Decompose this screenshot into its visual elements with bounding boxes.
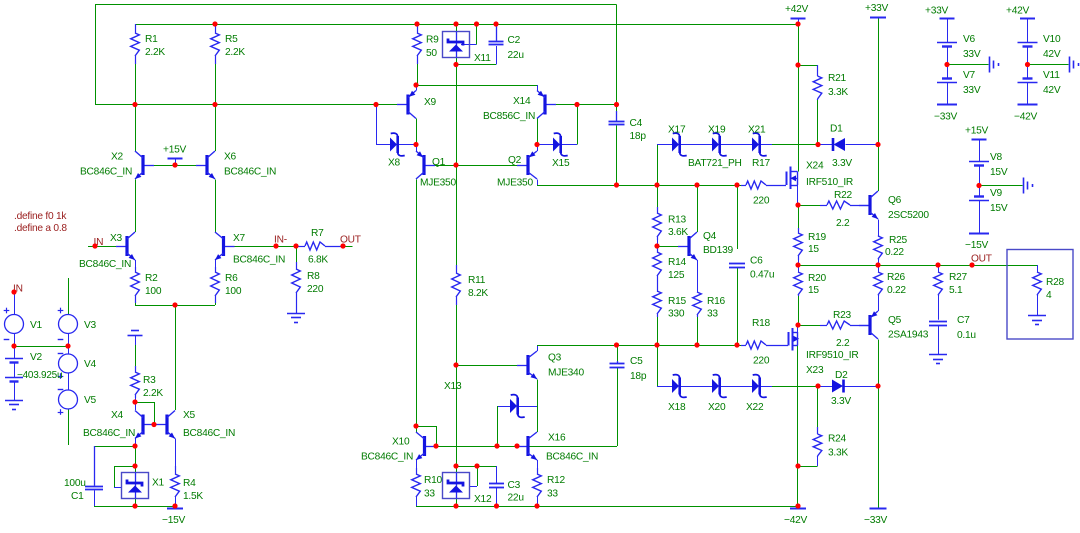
capacitor C2	[489, 24, 504, 45]
svg-text:R8: R8	[307, 271, 320, 282]
wire X4 collector loop drop	[154, 402, 156, 425]
label X4	[111, 410, 124, 421]
wire chain2 X18 lead	[657, 386, 672, 388]
wire bottom left rail y=506	[94, 506, 175, 508]
directive .define a 0.8	[14, 223, 67, 234]
value R25	[885, 247, 904, 258]
wire R5 top drop	[215, 24, 217, 32]
svg-text:BC846C_IN: BC846C_IN	[79, 259, 131, 270]
wire R13 bottom to Q4 node	[657, 240, 659, 246]
label X6	[224, 152, 237, 163]
wire X11 node to C2	[456, 64, 496, 66]
svg-text:V2: V2	[30, 352, 43, 363]
resistor R26	[874, 272, 883, 296]
wire R11 column top	[456, 165, 458, 265]
wire R11 column bottom	[456, 305, 458, 365]
rail -15V bar (V9)	[969, 233, 989, 235]
wire x=616 drop from top rail	[616, 5, 618, 105]
wire C6 top drop	[737, 185, 739, 249]
wire R14-R15	[657, 277, 659, 292]
wire V1 minus to node	[14, 334, 16, 347]
junction at (135,446)	[132, 443, 137, 448]
resistor R4	[171, 466, 180, 498]
label R18	[752, 318, 771, 329]
wire X9 emitter node	[416, 85, 418, 91]
svg-text:V5: V5	[84, 395, 97, 406]
junction at (697,185)	[694, 182, 699, 187]
value C5	[630, 371, 647, 382]
svg-text:R24: R24	[828, 434, 847, 445]
label R10	[424, 475, 443, 486]
label V11	[1043, 70, 1060, 81]
svg-text:125: 125	[668, 270, 685, 281]
svg-text:100: 100	[145, 286, 162, 297]
wire y=85 X9 to X14 emitter	[416, 85, 537, 87]
wire R22 from source node	[798, 205, 820, 207]
value R18	[753, 356, 770, 367]
wire +33V rail drop	[878, 18, 880, 145]
label X1	[152, 478, 165, 489]
value R19	[808, 244, 819, 255]
svg-text:3.3V: 3.3V	[832, 158, 852, 169]
mosfet X24 IRF510	[787, 167, 798, 190]
junction at (737,345)	[734, 342, 739, 347]
junction at (798,205)	[795, 202, 800, 207]
junction at (95,246)	[92, 243, 97, 248]
label +33V	[865, 3, 889, 14]
model X3	[79, 259, 131, 270]
svg-text:BC846C_IN: BC846C_IN	[224, 167, 276, 178]
model X10	[361, 452, 413, 463]
junction at (456,506)	[453, 503, 458, 508]
svg-text:15V: 15V	[990, 203, 1008, 214]
wire X9 collector to Q1 node	[416, 119, 418, 145]
wire V6V7 node to ground	[947, 64, 989, 66]
transistor X9 (pnp)	[397, 91, 416, 119]
value V7	[963, 85, 981, 96]
label R25	[889, 235, 908, 246]
svg-text:R20: R20	[808, 273, 827, 284]
svg-text:R28: R28	[1046, 277, 1065, 288]
label X24	[806, 161, 824, 172]
junction at (376,104.5)	[373, 102, 378, 107]
label V3	[84, 320, 97, 331]
svg-text:42V: 42V	[1043, 85, 1061, 96]
wire chain X21 right lead	[760, 144, 772, 146]
svg-text:R21: R21	[828, 73, 847, 84]
junction at (343,246)	[340, 243, 345, 248]
transistor X2	[135, 151, 154, 179]
resistor R18	[741, 341, 788, 349]
value R6	[225, 286, 242, 297]
svg-text:220: 220	[753, 356, 770, 367]
load box around R28	[1007, 250, 1073, 340]
resistor R17	[741, 181, 786, 189]
svg-text:15: 15	[808, 285, 819, 296]
svg-text:X15: X15	[552, 158, 570, 169]
svg-text:IRF510_IR: IRF510_IR	[806, 177, 853, 188]
svg-text:+42V: +42V	[785, 4, 809, 15]
transistor Q4 BD139	[678, 232, 697, 260]
svg-text:2.2: 2.2	[836, 218, 850, 229]
svg-text:−15V: −15V	[965, 240, 989, 251]
svg-text:BAT721_PH: BAT721_PH	[688, 158, 742, 169]
zener X17	[672, 133, 687, 156]
transistor Q6 2SC5200	[859, 191, 878, 219]
rail +42V bar	[791, 18, 806, 20]
svg-text:0.1u: 0.1u	[957, 330, 976, 341]
wire X8 anode lead	[376, 144, 390, 146]
svg-text:100: 100	[225, 286, 242, 297]
capacitor C5	[610, 361, 625, 368]
wire R19 bottom	[798, 260, 800, 265]
rail -42V bar (V11)	[1018, 104, 1038, 106]
wire R12 bottom	[537, 497, 539, 506]
svg-text:D1: D1	[830, 124, 843, 135]
source V1	[4, 308, 24, 340]
svg-text:2SC5200: 2SC5200	[888, 210, 929, 221]
capacitor C6	[729, 264, 745, 268]
wire X23 drain drop	[797, 346, 799, 507]
svg-text:V8: V8	[990, 152, 1003, 163]
junction at (276,246)	[273, 243, 278, 248]
label R13	[668, 215, 687, 226]
svg-text:−403.925u: −403.925u	[17, 370, 62, 381]
value R26	[887, 285, 906, 296]
svg-text:2.2K: 2.2K	[143, 388, 163, 399]
junction at (577,104.5)	[574, 102, 579, 107]
wire V10 to node	[1027, 47, 1029, 65]
capacitor C4	[609, 111, 625, 125]
value R15	[668, 309, 685, 320]
svg-text:1.5K: 1.5K	[183, 491, 203, 502]
label V1	[30, 320, 43, 331]
svg-text:50: 50	[426, 48, 437, 59]
value V9	[990, 203, 1008, 214]
wire Q5 collector drop	[878, 340, 880, 509]
label R19	[808, 232, 827, 243]
svg-text:R27: R27	[949, 272, 968, 283]
wire V10V11 node to ground	[1028, 64, 1069, 66]
rail -42V bar	[790, 508, 806, 510]
value C4	[630, 131, 647, 142]
transistor Q2 MJE350 (pnp)	[517, 151, 537, 179]
label R7	[311, 228, 324, 239]
junction at (616.5,345)	[614, 342, 619, 347]
wire +42V stub	[798, 18, 800, 24]
wire chain2 riser x=657	[657, 345, 659, 386]
value R5	[225, 47, 245, 58]
rail +33V bar	[870, 17, 886, 19]
label R1	[145, 34, 158, 45]
label X8	[388, 158, 401, 169]
svg-text:X12: X12	[474, 494, 492, 505]
junction at (517,446)	[514, 443, 519, 448]
junction at (878,144.5)	[875, 142, 880, 147]
label X16	[548, 433, 566, 444]
resistor R8	[292, 262, 301, 313]
svg-text:R1: R1	[145, 34, 158, 45]
svg-text:3.3V: 3.3V	[831, 396, 851, 407]
wire D2 anode lead	[818, 386, 832, 388]
svg-text:2.2K: 2.2K	[145, 47, 165, 58]
svg-text:R25: R25	[889, 235, 908, 246]
label C6	[750, 256, 763, 267]
model X4	[83, 428, 135, 439]
label X9	[424, 97, 437, 108]
junction at (657,246)	[654, 243, 659, 248]
wire X1 tap into box	[114, 487, 122, 489]
wire X16 collector segment	[537, 406, 539, 432]
junction at (14,292)	[11, 289, 16, 294]
svg-text:Q6: Q6	[888, 195, 902, 206]
wire +15V stub	[175, 159, 177, 166]
wire Q1 emitter stub	[416, 145, 418, 152]
label C3	[508, 480, 521, 491]
svg-text:MJE340: MJE340	[548, 368, 584, 379]
wire OUT stub right of R7	[343, 246, 353, 248]
wire node V1V2 to node V3V4	[14, 346, 68, 348]
wire X13 left lead	[497, 406, 510, 408]
wire V2 mid lead	[14, 363, 16, 378]
net label IN (amp input)	[94, 237, 104, 248]
wire ground-R3 gap	[135, 345, 137, 366]
wire chain2 X22 to D2 node	[772, 386, 818, 388]
wire V5 bottom stub	[68, 409, 70, 445]
svg-text:3.3K: 3.3K	[828, 448, 848, 459]
junction at (657,345)	[654, 342, 659, 347]
wire R10 bottom	[416, 497, 418, 506]
wire X11 anode node	[456, 58, 458, 65]
boxed zener X11	[443, 32, 470, 58]
label X12	[474, 494, 492, 505]
wire C1 bottom corner	[94, 490, 96, 506]
model Q5	[888, 330, 929, 341]
svg-text:BC846C_IN: BC846C_IN	[183, 428, 235, 439]
svg-text:0.22: 0.22	[887, 285, 906, 296]
wire X1 tap drop	[114, 466, 116, 487]
label R24	[828, 434, 847, 445]
wire X2 base to +15V node	[143, 165, 175, 167]
junction at (416,426)	[413, 423, 418, 428]
junction at (215,104.5)	[212, 102, 217, 107]
wire R19 top	[798, 205, 800, 228]
svg-text:C7: C7	[957, 315, 970, 326]
wire X4 base to X5 base	[143, 424, 167, 426]
svg-text:X10: X10	[392, 437, 410, 448]
wire Q1 collector long drop x=416	[416, 180, 418, 427]
wire bottom mid rail y=506	[416, 506, 798, 508]
svg-text:V10: V10	[1043, 34, 1061, 45]
wire R24 top drop	[817, 386, 819, 427]
svg-text:X22: X22	[746, 402, 764, 413]
wire V7 bottom lead	[947, 83, 949, 105]
junction at (798,265)	[795, 262, 800, 267]
source V5	[58, 390, 78, 415]
wire R26 top	[878, 265, 880, 272]
junction at (496.5,506)	[494, 503, 499, 508]
junction at (476.5,24)	[474, 21, 479, 26]
junction at (878,386)	[875, 383, 880, 388]
value R22	[836, 218, 850, 229]
wire mirror base rail y=446	[436, 446, 617, 448]
svg-text:R3: R3	[143, 375, 156, 386]
svg-text:V9: V9	[990, 188, 1003, 199]
zener X18	[672, 375, 687, 398]
battery V7 (short top)	[937, 79, 957, 83]
label -15V (V9)	[965, 240, 989, 251]
svg-text:Q3: Q3	[548, 353, 562, 364]
svg-text:33: 33	[707, 309, 718, 320]
junction at (878,265)	[875, 262, 880, 267]
svg-text:V11: V11	[1043, 70, 1060, 81]
svg-text:R2: R2	[145, 273, 158, 284]
wire X12 tap horiz	[470, 486, 478, 488]
label R5	[225, 34, 238, 45]
svg-text:33V: 33V	[963, 85, 981, 96]
label R8	[307, 271, 320, 282]
wire R13 top	[657, 185, 659, 207]
label Q1	[432, 157, 446, 168]
svg-text:R6: R6	[225, 273, 238, 284]
junction R4 ground node	[172, 503, 177, 508]
label C1	[71, 491, 84, 502]
label C1 value	[64, 478, 86, 489]
wire R6 bottom	[215, 303, 217, 305]
resistor R9	[413, 24, 422, 64]
resistor R11	[452, 265, 461, 305]
label R3	[143, 375, 156, 386]
label -42V (V11)	[1014, 112, 1038, 123]
wire X4 emitter down	[135, 439, 137, 447]
label X2	[111, 152, 124, 163]
svg-text:0.22: 0.22	[885, 247, 904, 258]
svg-text:IRF9510_IR: IRF9510_IR	[806, 350, 858, 361]
label R27	[949, 272, 968, 283]
resistor R3	[131, 366, 140, 398]
svg-text:−33V: −33V	[864, 515, 888, 526]
label X21	[748, 125, 766, 136]
wire x=456 down to X12 node	[456, 365, 458, 466]
wire C3 bottom drop	[496, 487, 498, 506]
boxed zener X12	[443, 473, 470, 499]
svg-text:Q2: Q2	[508, 155, 522, 166]
net label IN-	[274, 235, 287, 246]
value C7	[957, 330, 976, 341]
value C6	[750, 270, 774, 281]
resistor R25	[874, 235, 883, 260]
resistor R2	[131, 267, 140, 303]
wire Q6 collector riser	[878, 145, 880, 192]
resistor R13	[653, 207, 662, 240]
label V2	[30, 352, 43, 363]
label R28	[1046, 277, 1065, 288]
wire VAS out rail y=345	[537, 345, 746, 347]
junction at (616.5,185)	[614, 182, 619, 187]
svg-text:8.2K: 8.2K	[468, 288, 488, 299]
svg-text:R26: R26	[887, 272, 906, 283]
svg-text:C6: C6	[750, 256, 763, 267]
wire chain X17-X19	[680, 144, 712, 146]
wire R9 bottom to node	[417, 64, 419, 85]
svg-text:V7: V7	[963, 70, 976, 81]
source V4	[58, 354, 78, 379]
junction at (798,24)	[795, 21, 800, 26]
label X15	[552, 158, 570, 169]
wire X15 riser to base wire	[577, 105, 579, 145]
svg-text:220: 220	[307, 284, 324, 295]
source V3	[58, 308, 78, 340]
resistor R10	[412, 468, 421, 498]
capacitor C7	[929, 322, 947, 326]
label C2	[508, 35, 521, 46]
wire V8 top lead	[979, 139, 981, 162]
svg-text:V4: V4	[84, 359, 97, 370]
wire R24 bottom to X23 drain	[798, 466, 818, 468]
transistor Q3 MJE340	[517, 351, 537, 379]
svg-text:R22: R22	[834, 190, 853, 201]
wire X14 emitter drop	[537, 85, 539, 91]
wire R28 bottom to ground	[1037, 296, 1039, 315]
zener X22	[752, 375, 767, 398]
wire X4 emitter node to C1 corner	[94, 446, 135, 448]
wire main +42V top rail y=24	[135, 24, 798, 26]
wire D1 cathode lead	[818, 144, 833, 146]
svg-text:Q1: Q1	[432, 157, 446, 168]
junction at (436,446)	[433, 443, 438, 448]
wire X14 collector drop	[537, 119, 539, 145]
svg-text:X8: X8	[388, 158, 401, 169]
label V10	[1043, 34, 1061, 45]
diode D1 3.3V	[833, 138, 845, 151]
svg-text:V1: V1	[30, 320, 43, 331]
wire C3 top drop	[496, 466, 498, 483]
rail +42V bar (V10)	[1020, 18, 1035, 20]
wire V3 top stub	[68, 278, 70, 315]
wire C5 bottom riser x=617	[617, 368, 619, 447]
label Q6	[888, 195, 902, 206]
value C2	[508, 50, 524, 61]
wire Q4 collector riser	[697, 185, 699, 232]
value R27	[949, 285, 963, 296]
svg-text:V6: V6	[963, 34, 976, 45]
svg-text:+42V: +42V	[1006, 6, 1030, 17]
value V10	[1043, 49, 1061, 60]
wire X11 tap riser	[476, 24, 478, 45]
resistor R12	[533, 468, 542, 498]
rail +33V bar (V6)	[940, 18, 955, 20]
svg-text:R7: R7	[311, 228, 324, 239]
svg-text:V3: V3	[84, 320, 97, 331]
wire IN- node down to R8	[296, 246, 298, 262]
wire X4 collector loop horiz	[135, 402, 154, 404]
model Q3	[548, 368, 584, 379]
label Q5	[888, 315, 902, 326]
resistor R5	[211, 24, 220, 64]
label C4	[630, 118, 643, 129]
value R8	[307, 284, 324, 295]
wire chain2 X20-X22	[720, 386, 752, 388]
svg-text:R12: R12	[547, 475, 566, 486]
svg-text:.define f0 1k: .define f0 1k	[14, 211, 67, 222]
wire X5 emitter down to R4	[175, 439, 177, 467]
wire X1 tap horiz at y=466	[114, 466, 135, 468]
battery V8	[969, 162, 989, 166]
svg-text:R17: R17	[752, 158, 771, 169]
wire X11 cathode drop into box	[456, 24, 458, 32]
wire zener chain riser x=657	[657, 145, 659, 186]
label Q2	[508, 155, 522, 166]
